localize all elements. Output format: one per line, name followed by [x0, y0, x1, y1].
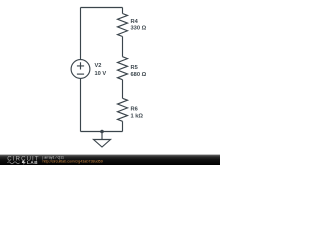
svg-text:http://circuitlab.com/c/g43ab7: http://circuitlab.com/c/g43ab738ud59 — [43, 159, 103, 163]
wire top stub to R4 — [122, 8, 124, 14]
wire left top (top rail to V2 top) — [80, 8, 82, 60]
voltage source V2 circle — [71, 60, 90, 79]
resistor R6 — [118, 98, 128, 121]
svg-text:R4: R4 — [131, 19, 139, 25]
svg-text:1 kΩ: 1 kΩ — [131, 113, 144, 119]
wire R4 to R5 — [122, 37, 124, 57]
wire bottom rail — [81, 131, 123, 133]
svg-text:LAB: LAB — [27, 160, 38, 165]
ground stem wire — [101, 132, 103, 140]
svg-text:R6: R6 — [131, 106, 138, 112]
svg-text:680 Ω: 680 Ω — [131, 72, 147, 78]
svg-text:330 Ω: 330 Ω — [131, 26, 147, 32]
wire R6 to bottom rail — [122, 121, 124, 131]
svg-text:10 V: 10 V — [95, 71, 107, 77]
resistor R4 — [118, 14, 128, 37]
logo lightning bolt — [22, 161, 26, 165]
node junction dot — [100, 130, 104, 134]
ground symbol triangle — [94, 140, 111, 148]
V2 plus sign — [77, 62, 84, 69]
resistor R5 — [118, 57, 128, 80]
wire R5 to R6 — [122, 80, 124, 99]
svg-text:V2: V2 — [95, 63, 102, 69]
logo squiggle wave — [8, 162, 20, 164]
svg-text:R5: R5 — [131, 65, 138, 71]
V2 minus sign — [77, 73, 84, 75]
wire top rail — [81, 7, 123, 9]
wire left bottom (V2 bottom to bottom rail) — [80, 78, 82, 131]
